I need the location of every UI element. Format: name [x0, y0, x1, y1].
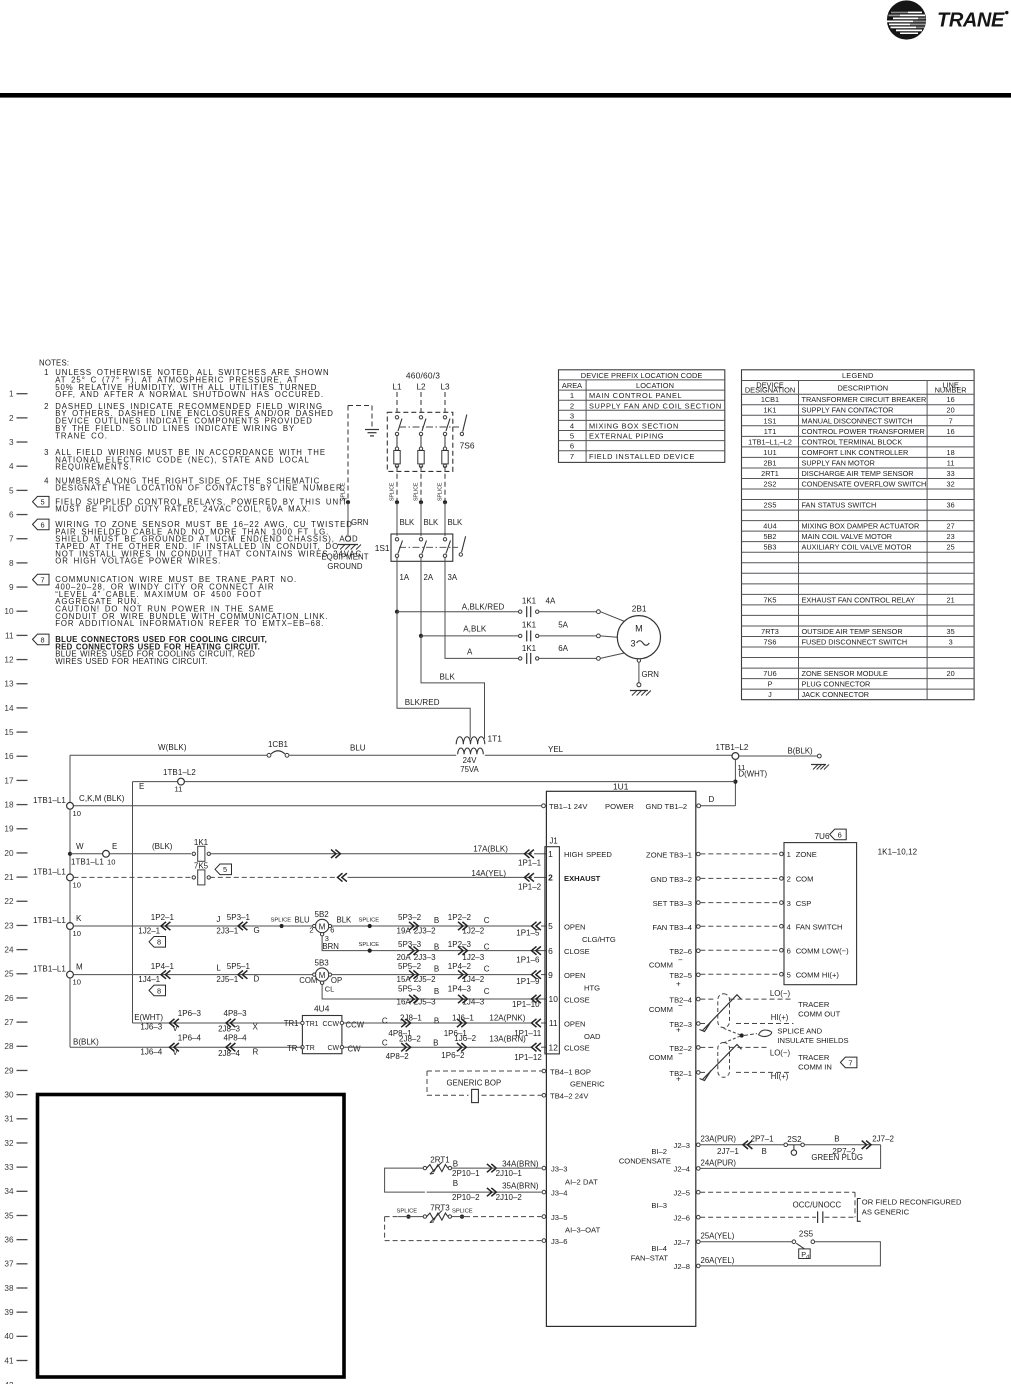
terminal J2-5 — [697, 1190, 701, 1194]
svg-text:2P10–1: 2P10–1 — [452, 1169, 480, 1178]
svg-text:NUMBER: NUMBER — [935, 386, 967, 395]
svg-text:INSULATE SHIELDS: INSULATE SHIELDS — [777, 1036, 848, 1045]
svg-text:35: 35 — [4, 1211, 14, 1220]
terminal TB2–6 — [697, 949, 701, 953]
svg-text:FAN–STAT: FAN–STAT — [631, 1254, 669, 1263]
svg-text:41: 41 — [4, 1356, 14, 1365]
svg-text:BLK: BLK — [448, 518, 464, 527]
svg-text:5B3: 5B3 — [764, 543, 777, 552]
svg-text:A: A — [467, 648, 473, 657]
motor lead T3 — [597, 657, 601, 661]
svg-text:5: 5 — [548, 921, 553, 931]
svg-text:10: 10 — [73, 929, 81, 938]
svg-text:TRACER: TRACER — [798, 1053, 830, 1062]
7U6 terminal 5 COMM HI(+) — [780, 972, 784, 976]
svg-text:2J10–2: 2J10–2 — [496, 1193, 523, 1202]
relay coil 7K5 — [192, 876, 195, 879]
svg-text:13: 13 — [4, 680, 14, 689]
svg-text:4U4: 4U4 — [314, 1003, 330, 1013]
svg-text:CLOSE: CLOSE — [564, 947, 590, 956]
svg-text:GENERIC BOP: GENERIC BOP — [447, 1078, 502, 1087]
svg-text:7RT3: 7RT3 — [430, 1203, 450, 1212]
terminal TB1-1 — [542, 804, 546, 808]
legend table — [742, 370, 975, 700]
svg-text:COMM: COMM — [649, 1005, 673, 1014]
svg-text:5P3–1: 5P3–1 — [227, 913, 251, 922]
svg-text:FAN SWITCH: FAN SWITCH — [796, 922, 843, 931]
svg-text:B: B — [762, 1147, 767, 1156]
svg-text:4P8–4: 4P8–4 — [224, 1033, 248, 1042]
tracer comm in shielded pair — [700, 1046, 716, 1048]
terminal TB2–1 — [697, 1071, 701, 1075]
svg-text:24: 24 — [4, 946, 14, 955]
svg-text:7RT3: 7RT3 — [761, 627, 779, 636]
svg-text:35: 35 — [947, 627, 955, 636]
svg-text:4U4: 4U4 — [763, 522, 776, 531]
wire 1U1 to 7U6 1 dashed — [700, 853, 779, 855]
svg-text:L1: L1 — [392, 382, 402, 391]
svg-text:J2–5: J2–5 — [674, 1188, 690, 1197]
terminal TB2–5 — [697, 973, 701, 977]
control power transformer 1T1 — [456, 737, 485, 744]
wire GRN equipment ground run — [347, 406, 349, 501]
svg-text:HI(+): HI(+) — [771, 1013, 789, 1022]
contact 1K1 line6 — [519, 657, 522, 660]
svg-text:12: 12 — [4, 655, 14, 664]
svg-text:2J5–1: 2J5–1 — [216, 975, 238, 984]
svg-text:38: 38 — [4, 1284, 14, 1293]
svg-text:CCW: CCW — [323, 1021, 340, 1028]
wire 2A — [420, 558, 422, 636]
svg-text:SPLICE: SPLICE — [359, 917, 380, 923]
bus E vertical — [132, 782, 134, 1023]
receptacle 1P1-10 — [532, 995, 537, 1003]
svg-text:1TB1–L1: 1TB1–L1 — [33, 916, 66, 925]
svg-text:1T1: 1T1 — [488, 734, 503, 744]
wire to J3-3 — [452, 1167, 542, 1169]
left margin line-number ticks 1-41 — [4, 390, 27, 1366]
svg-text:C,K,M (BLK): C,K,M (BLK) — [79, 794, 125, 803]
svg-text:1P1–10: 1P1–10 — [512, 1000, 540, 1009]
equipment ground terminal — [345, 536, 350, 541]
svg-text:COMM: COMM — [649, 1053, 673, 1062]
svg-text:C: C — [484, 987, 490, 996]
shield drain to splice — [724, 1028, 742, 1035]
svg-text:4A: 4A — [546, 597, 556, 606]
svg-text:B: B — [434, 916, 439, 925]
svg-text:1: 1 — [548, 849, 553, 859]
svg-text:33: 33 — [4, 1163, 14, 1172]
svg-text:30: 30 — [4, 1091, 14, 1100]
svg-text:32: 32 — [4, 1139, 14, 1148]
terminal 1TB1-L1 line18 — [67, 802, 74, 809]
svg-text:−: − — [678, 956, 683, 965]
svg-text:TB2–3: TB2–3 — [669, 1020, 692, 1029]
svg-text:+: + — [676, 1074, 681, 1083]
svg-text:5B2: 5B2 — [315, 910, 330, 919]
svg-text:4: 4 — [44, 476, 49, 485]
7S6 fuse at x=397 — [395, 447, 398, 450]
svg-text:10: 10 — [107, 857, 115, 866]
wire line17 E run — [133, 781, 736, 783]
svg-text:D(WHT): D(WHT) — [739, 770, 768, 779]
comm in pair crossover — [703, 1045, 742, 1080]
svg-text:J: J — [216, 915, 220, 924]
wire 1U1 to 7U6 3 dashed — [700, 902, 779, 904]
svg-text:J2–4: J2–4 — [674, 1165, 690, 1174]
svg-text:7: 7 — [949, 416, 953, 425]
svg-text:CLG/HTG: CLG/HTG — [582, 935, 616, 944]
svg-text:1CB1: 1CB1 — [268, 740, 289, 749]
svg-text:LEGEND: LEGEND — [842, 371, 874, 380]
svg-text:2: 2 — [9, 414, 14, 423]
svg-text:OAD: OAD — [584, 1032, 601, 1041]
svg-text:8: 8 — [9, 559, 14, 568]
svg-text:5: 5 — [570, 432, 574, 441]
svg-text:CLOSE: CLOSE — [564, 1044, 590, 1053]
wire 24V bus line16 left — [70, 754, 267, 756]
svg-text:1J6–2: 1J6–2 — [454, 1034, 476, 1043]
svg-text:9: 9 — [548, 970, 553, 980]
svg-text:E: E — [139, 782, 144, 791]
comm out pair crossover — [703, 995, 742, 1031]
svg-text:J2–3: J2–3 — [674, 1141, 690, 1150]
svg-text:B(BLK): B(BLK) — [788, 746, 814, 755]
svg-text:E: E — [112, 842, 117, 851]
wire 5B3 CL drop — [322, 985, 546, 1000]
receptacle 1P1-11 — [532, 1019, 537, 1027]
wire 1U1 to 7U6 6 dashed — [700, 949, 779, 951]
svg-text:1P1–6: 1P1–6 — [516, 955, 540, 964]
svg-text:FOR ADDITIONAL INFORMATION REF: FOR ADDITIONAL INFORMATION REFER TO EMTX… — [55, 619, 324, 628]
svg-text:CONTROL POWER TRANSFORMER: CONTROL POWER TRANSFORMER — [802, 427, 925, 436]
svg-text:SET TB3–3: SET TB3–3 — [653, 899, 692, 908]
svg-text:TRANE: TRANE — [937, 10, 1005, 32]
svg-text:20: 20 — [947, 406, 955, 415]
wire L2 drop — [420, 392, 422, 412]
receptacle 1P1-6 — [532, 946, 537, 954]
7U6 terminal 2 COM — [780, 877, 784, 881]
svg-text:BI–3: BI–3 — [651, 1201, 667, 1210]
svg-text:2P10–2: 2P10–2 — [452, 1193, 480, 1202]
wire 7S6 to splice L3 — [444, 466, 446, 500]
svg-text:B: B — [434, 964, 439, 973]
equipment ground symbol — [338, 544, 358, 546]
svg-text:34: 34 — [4, 1187, 14, 1196]
svg-text:1U1: 1U1 — [763, 448, 776, 457]
svg-text:SPLICE: SPLICE — [341, 482, 347, 501]
svg-text:L: L — [216, 964, 221, 973]
svg-text:1P4–2: 1P4–2 — [448, 962, 472, 971]
svg-text:DISCHARGE AIR TEMP SENSOR: DISCHARGE AIR TEMP SENSOR — [802, 469, 914, 478]
svg-text:DESIGNATE THE LOCATION OF CONT: DESIGNATE THE LOCATION OF CONTACTS BY LI… — [55, 484, 345, 493]
svg-text:5B3: 5B3 — [315, 959, 330, 968]
svg-text:BI–4: BI–4 — [651, 1244, 667, 1253]
svg-text:20: 20 — [947, 669, 955, 678]
svg-text:17A(BLK): 17A(BLK) — [473, 844, 508, 853]
svg-text:1K1: 1K1 — [522, 644, 537, 653]
svg-text:GND TB1–2: GND TB1–2 — [646, 802, 688, 811]
svg-text:5P5–2: 5P5–2 — [398, 962, 422, 971]
svg-text:16: 16 — [4, 752, 14, 761]
svg-text:OPEN: OPEN — [564, 922, 586, 931]
7U6 terminal 6 COMM LOW(−) — [780, 948, 784, 952]
svg-text:M: M — [319, 922, 326, 931]
wire 23A(PUR) — [700, 1144, 784, 1146]
svg-text:J2–6: J2–6 — [674, 1213, 690, 1222]
svg-text:2J8–4: 2J8–4 — [218, 1049, 240, 1058]
svg-text:HTG: HTG — [584, 983, 600, 992]
svg-text:1T1: 1T1 — [764, 427, 777, 436]
svg-text:B: B — [433, 1039, 438, 1048]
svg-text:13A(BRN): 13A(BRN) — [489, 1035, 526, 1044]
svg-text:CONDENSATE: CONDENSATE — [619, 1156, 671, 1165]
svg-text:M: M — [635, 624, 643, 634]
svg-text:LOCATION: LOCATION — [636, 381, 674, 390]
wire 6A — [539, 657, 597, 659]
svg-text:V: V — [173, 1048, 179, 1057]
wire L3 drop — [444, 392, 446, 412]
svg-text:22: 22 — [4, 897, 14, 906]
svg-text:OR HIGH VOLTAGE POWER WIRES.: OR HIGH VOLTAGE POWER WIRES. — [55, 557, 221, 566]
wire line23 K circuit — [73, 925, 279, 927]
svg-text:BLK: BLK — [424, 518, 440, 527]
svg-text:SPLICE: SPLICE — [397, 1208, 418, 1214]
svg-text:2B1: 2B1 — [632, 604, 647, 614]
motor ground symbol — [630, 690, 648, 692]
field reconfig bracket — [857, 1199, 860, 1222]
svg-text:E(WHT): E(WHT) — [134, 1013, 163, 1022]
svg-text:A,BLK: A,BLK — [463, 625, 487, 634]
svg-text:DESCRIPTION: DESCRIPTION — [838, 384, 889, 393]
svg-text:ZONE: ZONE — [796, 850, 817, 859]
svg-text:6: 6 — [570, 442, 574, 451]
svg-text:BLK: BLK — [337, 915, 353, 924]
wire 1A — [396, 558, 398, 612]
svg-text:7: 7 — [40, 576, 44, 585]
terminal J3-6 — [542, 1239, 546, 1243]
svg-text:1S1: 1S1 — [764, 416, 777, 425]
svg-text:TRANSFORMER CIRCUIT BREAKER: TRANSFORMER CIRCUIT BREAKER — [802, 395, 927, 404]
svg-text:CONDENSATE OVERFLOW SWITCH: CONDENSATE OVERFLOW SWITCH — [802, 479, 927, 488]
7U6 terminal 3 CSP — [780, 901, 784, 905]
wire GRN — [347, 502, 349, 535]
wire B(BLK) to ground — [739, 755, 818, 757]
svg-text:−: − — [678, 1001, 683, 1010]
splice 7RT3 left — [406, 1215, 410, 1219]
generic BOP dashed enclosure — [427, 1070, 542, 1072]
svg-text:5: 5 — [40, 498, 44, 507]
svg-text:DEVICE PREFIX LOCATION CODE: DEVICE PREFIX LOCATION CODE — [581, 371, 703, 380]
svg-text:4P8–2: 4P8–2 — [386, 1052, 410, 1061]
svg-text:C: C — [382, 1016, 388, 1025]
svg-text:8: 8 — [157, 986, 161, 995]
svg-text:24A(PUR): 24A(PUR) — [701, 1158, 737, 1167]
motor ground terminal — [637, 683, 641, 687]
svg-text:4P8–3: 4P8–3 — [224, 1009, 248, 1018]
svg-text:G: G — [254, 926, 260, 935]
svg-text:26: 26 — [4, 994, 14, 1003]
wire BLU segment — [289, 754, 456, 756]
wire line21 dashed to coil — [73, 876, 191, 878]
svg-text:1TB1–L1: 1TB1–L1 — [33, 964, 66, 973]
wire line25 M circuit — [73, 974, 316, 976]
svg-text:10: 10 — [549, 994, 559, 1004]
terminal 1TB1-L1 line23 — [67, 923, 74, 930]
circuit breaker 1CB1 — [267, 753, 271, 757]
wire 4A — [539, 611, 597, 613]
terminal 1TB1-L2 line17 — [178, 778, 185, 785]
splice line23 right — [368, 924, 372, 928]
svg-text:D: D — [254, 975, 260, 984]
svg-text:J2–8: J2–8 — [674, 1262, 690, 1271]
svg-text:3A: 3A — [448, 573, 458, 582]
terminal TB4-1 — [542, 1069, 546, 1073]
svg-text:6: 6 — [40, 520, 44, 529]
1S1 pole at x=421 — [419, 538, 422, 541]
svg-text:CONTROL TERMINAL BLOCK: CONTROL TERMINAL BLOCK — [802, 437, 903, 446]
receptacle 1P1-9 — [532, 970, 537, 978]
svg-text:32: 32 — [947, 479, 955, 488]
svg-text:1TB1–L1,–L2: 1TB1–L1,–L2 — [748, 437, 792, 446]
wire line20 to coil — [109, 853, 191, 855]
wire line25 right of 5B3 — [332, 974, 532, 976]
svg-text:−: − — [678, 1049, 683, 1058]
svg-text:39: 39 — [4, 1308, 14, 1317]
wire return loop to J2-4 — [700, 1145, 881, 1169]
svg-text:BI–2: BI–2 — [651, 1147, 667, 1156]
svg-text:11: 11 — [175, 785, 183, 794]
svg-text:3: 3 — [570, 411, 574, 420]
svg-text:37: 37 — [4, 1260, 14, 1269]
svg-text:GROUND: GROUND — [327, 562, 363, 571]
svg-text:J1: J1 — [550, 837, 558, 846]
svg-text:7: 7 — [570, 452, 574, 461]
wire BLK L3 — [444, 502, 446, 536]
svg-text:B: B — [434, 1016, 439, 1025]
svg-text:HI(+): HI(+) — [771, 1072, 789, 1081]
1S1 linkage — [399, 546, 458, 548]
svg-text:CLOSE: CLOSE — [564, 995, 590, 1004]
svg-text:24V: 24V — [463, 756, 478, 765]
terminal TB3–2 — [697, 877, 701, 881]
svg-text:SPLICE: SPLICE — [271, 917, 292, 923]
wire 2S5 loop to J2-8 — [700, 1242, 880, 1266]
junction line20 — [68, 852, 72, 856]
svg-text:MANUAL DISCONNECT SWITCH: MANUAL DISCONNECT SWITCH — [802, 416, 913, 425]
wire 5A — [539, 635, 597, 637]
tracer comm out shielded pair — [700, 998, 716, 1000]
terminal J2-6 — [697, 1215, 701, 1219]
svg-text:SPLICE AND: SPLICE AND — [777, 1027, 822, 1036]
svg-text:OUTSIDE AIR TEMP SENSOR: OUTSIDE AIR TEMP SENSOR — [802, 627, 903, 636]
svg-text:FAN TB3–4: FAN TB3–4 — [652, 923, 692, 932]
svg-text:V: V — [173, 1024, 179, 1033]
svg-text:2S5: 2S5 — [764, 501, 777, 510]
svg-text:EQUIPMENT: EQUIPMENT — [321, 553, 368, 562]
svg-text:2J10–1: 2J10–1 — [496, 1169, 523, 1178]
svg-text:TRACER: TRACER — [798, 1000, 830, 1009]
svg-text:8: 8 — [157, 938, 161, 947]
svg-text:1P4–1: 1P4–1 — [151, 962, 175, 971]
7S6 switch pole at x=421 — [419, 416, 422, 419]
svg-text:7U6: 7U6 — [763, 669, 776, 678]
svg-text:10: 10 — [4, 607, 14, 616]
svg-text:CW: CW — [328, 1045, 340, 1052]
wire BLK L2 — [420, 502, 422, 536]
svg-text:7S6: 7S6 — [460, 441, 475, 451]
svg-text:SUPPLY FAN MOTOR: SUPPLY FAN MOTOR — [802, 458, 875, 467]
svg-text:36: 36 — [4, 1236, 14, 1245]
svg-text:EXHAUST: EXHAUST — [564, 874, 601, 883]
svg-text:1J4–1: 1J4–1 — [138, 975, 160, 984]
svg-text:TR: TR — [287, 1044, 298, 1053]
svg-text:2S2: 2S2 — [764, 479, 777, 488]
svg-text:33: 33 — [947, 469, 955, 478]
svg-text:1S1: 1S1 — [375, 543, 390, 553]
svg-text:7S6: 7S6 — [764, 637, 777, 646]
terminal J2-3 — [697, 1143, 701, 1147]
svg-text:P: P — [768, 680, 773, 689]
chassis ground symbol — [365, 429, 379, 431]
svg-text:FUSED DISCONNECT SWITCH: FUSED DISCONNECT SWITCH — [802, 637, 908, 646]
svg-text:18: 18 — [4, 800, 14, 809]
splice 7RT3 right — [460, 1215, 464, 1219]
svg-text:2: 2 — [44, 402, 48, 411]
wire 1U1 to 7U6 4 dashed — [700, 925, 779, 927]
svg-text:1P1–1: 1P1–1 — [518, 858, 542, 867]
7S6 fuse at x=421 — [419, 447, 422, 450]
svg-text:6: 6 — [838, 830, 842, 839]
svg-text:TR: TR — [306, 1045, 315, 1052]
svg-text:35A(BRN): 35A(BRN) — [502, 1181, 539, 1190]
svg-text:10: 10 — [73, 809, 81, 818]
svg-text:B: B — [834, 1134, 839, 1143]
svg-text:7: 7 — [9, 535, 14, 544]
svg-text:ZONE TB3–1: ZONE TB3–1 — [646, 850, 692, 859]
motor lead T1 — [597, 610, 601, 614]
wire line18 24V power — [73, 805, 543, 807]
terminal 1TB1-L1 line21 — [67, 874, 74, 881]
svg-text:FAN STATUS SWITCH: FAN STATUS SWITCH — [802, 501, 877, 510]
wire L1 drop — [396, 392, 398, 412]
wire D into TB1-2 — [699, 805, 736, 807]
svg-text:10: 10 — [73, 881, 81, 890]
terminal J2-4 — [697, 1167, 701, 1171]
svg-text:2B1: 2B1 — [764, 458, 777, 467]
svg-text:1P1–9: 1P1–9 — [516, 977, 540, 986]
svg-text:2: 2 — [548, 873, 553, 883]
svg-text:2J8–2: 2J8–2 — [399, 1035, 421, 1044]
svg-text:11: 11 — [5, 631, 14, 640]
motor lead T2 — [597, 634, 601, 638]
svg-text:1: 1 — [9, 390, 14, 399]
svg-text:1K1: 1K1 — [522, 621, 537, 630]
wire BLK L1 — [396, 502, 398, 536]
svg-text:1P6–2: 1P6–2 — [441, 1051, 465, 1060]
svg-text:J3–6: J3–6 — [551, 1237, 567, 1246]
svg-text:1J4–3: 1J4–3 — [462, 998, 484, 1007]
svg-text:2RT1: 2RT1 — [430, 1155, 450, 1164]
svg-text:COM: COM — [796, 875, 814, 884]
svg-text:M: M — [76, 963, 83, 972]
svg-text:20: 20 — [4, 849, 14, 858]
splice GRN — [346, 500, 350, 504]
svg-text:1P6–4: 1P6–4 — [178, 1033, 202, 1042]
svg-text:1P4–3: 1P4–3 — [448, 984, 472, 993]
svg-text:TRANE CO.: TRANE CO. — [55, 431, 108, 440]
7U6 terminal 4 FAN SWITCH — [780, 924, 784, 928]
